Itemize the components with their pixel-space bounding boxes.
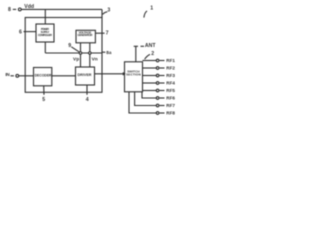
svg-text:3: 3: [107, 7, 110, 13]
wire RF2 stub: [143, 67, 165, 70]
leader for label 8a: [102, 51, 105, 53]
switch section box 2: [125, 62, 143, 92]
svg-text:2: 2: [151, 51, 154, 57]
svg-text:1: 1: [150, 6, 153, 12]
wire RF6 elbow: [142, 92, 165, 99]
wire Vdd horizontal: [21, 8, 102, 10]
svg-text:RF5: RF5: [166, 88, 175, 93]
svg-text:RF7: RF7: [166, 103, 175, 108]
wire 8a horizontal: [45, 52, 102, 54]
junction node circle Vp: [79, 52, 82, 55]
svg-text:4: 4: [86, 97, 89, 103]
leader for label 9: [71, 47, 79, 52]
svg-text:5: 5: [42, 97, 45, 103]
driver box 4: [76, 67, 95, 85]
wire Vdd drop to power supply controller: [44, 9, 46, 24]
svg-text:RF2: RF2: [166, 65, 175, 70]
svg-text:GENERATOR: GENERATOR: [78, 33, 94, 37]
svg-text:RF6: RF6: [166, 95, 175, 100]
svg-text:RF4: RF4: [166, 80, 175, 85]
wire IN to decoder: [19, 75, 34, 77]
wire RF3 stub: [143, 74, 165, 77]
leader for label 2: [145, 54, 150, 59]
svg-text:8a: 8a: [106, 50, 112, 55]
svg-text:DECODER: DECODER: [35, 73, 52, 78]
arrowhead on bus: [123, 73, 125, 75]
leader for label 6: [24, 31, 37, 33]
leader for label 5: [43, 86, 45, 95]
wire RF4 stub: [143, 82, 165, 85]
antenna symbol: [134, 46, 138, 62]
wire RF8 elbow: [129, 92, 165, 114]
svg-text:SECTION: SECTION: [126, 73, 141, 77]
junction node circle Vn: [89, 52, 92, 55]
leader for label 4: [86, 85, 88, 95]
svg-text:IN: IN: [5, 72, 10, 77]
leader for label 3: [103, 12, 108, 15]
svg-text:CONTROLLER: CONTROLLER: [38, 33, 53, 37]
svg-text:Vn: Vn: [92, 57, 98, 63]
wire RF5 stub: [143, 89, 165, 92]
decoder box 5: [34, 68, 52, 86]
svg-text:Vp: Vp: [73, 56, 79, 62]
svg-text:RF1: RF1: [166, 58, 175, 63]
wire RF7 elbow: [135, 92, 165, 107]
svg-text:ANT: ANT: [145, 43, 156, 49]
leader dash for ANT: [141, 45, 145, 47]
svg-text:6: 6: [19, 30, 22, 36]
svg-text:DRIVER: DRIVER: [78, 73, 92, 77]
svg-text:7: 7: [106, 31, 109, 37]
svg-text:8: 8: [8, 7, 11, 13]
svg-text:Vdd: Vdd: [24, 4, 34, 10]
wire Vdd rail stub top right: [101, 9, 103, 17]
leader for label 7: [95, 32, 104, 34]
svg-text:RF8: RF8: [166, 110, 175, 115]
wire driver to switch section bus: [95, 73, 125, 75]
wire PSC bottom drop: [44, 42, 46, 53]
text switch section: [126, 70, 141, 77]
svg-text:RF3: RF3: [166, 73, 175, 78]
leader for label 1: [144, 11, 147, 18]
wire RF1 stub: [143, 59, 165, 62]
terminal IN: [11, 74, 19, 77]
text power supply controller: [38, 27, 53, 37]
power supply controller box 6: [36, 24, 54, 42]
wire Vn: [89, 43, 91, 67]
voltage generator box 7: [76, 30, 95, 43]
text voltage generator: [78, 30, 94, 37]
block 3 outline: [25, 18, 102, 93]
svg-text:9: 9: [68, 43, 71, 49]
wire Vp: [80, 43, 82, 67]
wire decoder to driver: [52, 75, 76, 77]
terminal 8: [13, 8, 21, 11]
